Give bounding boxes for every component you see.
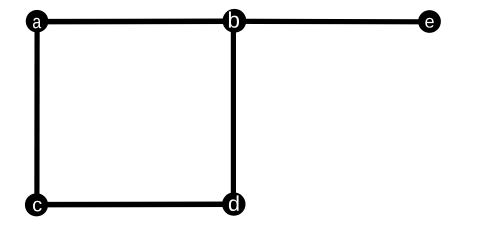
- node d: [222, 192, 245, 215]
- wire edge a-c: [34, 21, 39, 204]
- node a: [26, 10, 49, 33]
- wire edge a-b: [37, 19, 235, 25]
- wire edge b-e: [235, 19, 430, 25]
- node c: [25, 193, 48, 216]
- wire edge c-d: [37, 202, 234, 208]
- node e: [418, 10, 441, 33]
- node b: [223, 9, 247, 33]
- wire edge b-d: [231, 21, 236, 204]
